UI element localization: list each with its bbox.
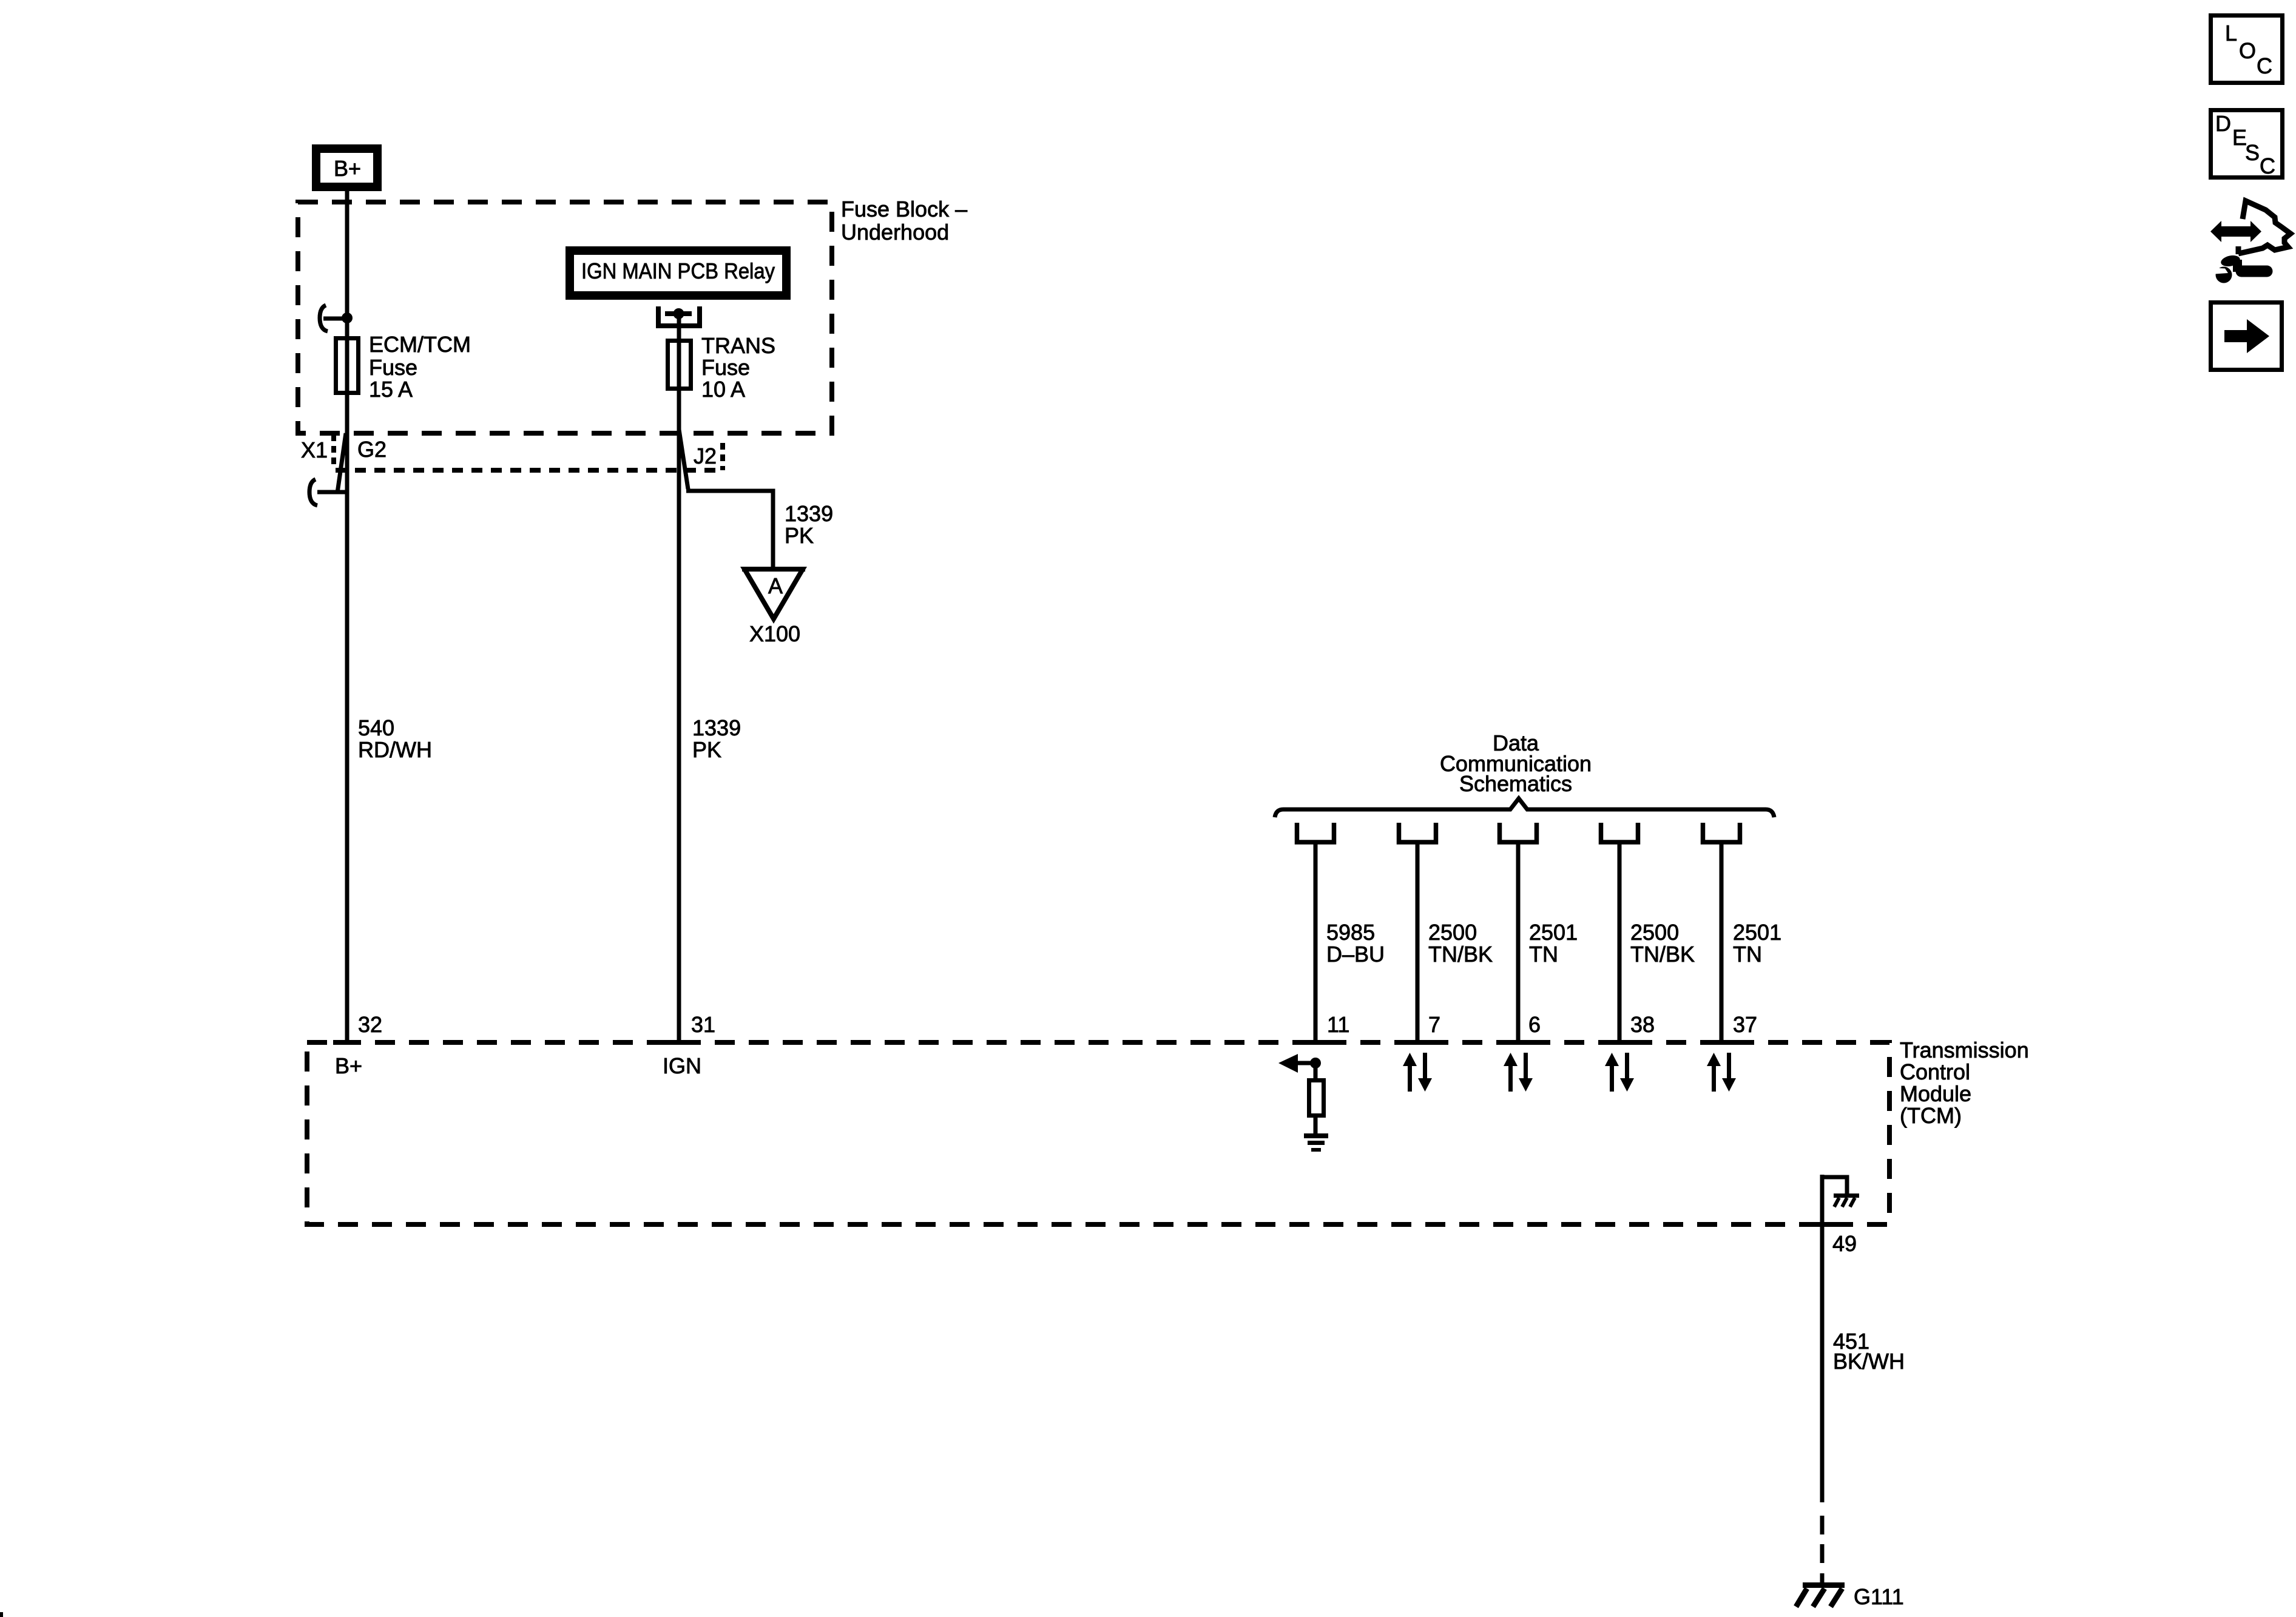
svg-text:PK: PK [692, 737, 721, 762]
internal chassis ground bracket at pin 49 [1822, 1177, 1847, 1196]
svg-text:B+: B+ [334, 156, 361, 181]
svg-text:J2: J2 [694, 444, 717, 468]
svg-text:L: L [2225, 21, 2237, 46]
svg-text:A: A [768, 573, 783, 598]
wire label 2501 TN (pin 37) [1733, 920, 1781, 967]
power feed box B+ [316, 149, 377, 187]
internal chassis ground symbol [1834, 1196, 1859, 1207]
pin 31 label [691, 1012, 715, 1037]
fuse ECM/TCM 15 A [336, 339, 359, 393]
wire label 1339 PK (branch) [785, 501, 833, 548]
node X1 label [301, 437, 328, 462]
pin 11 label [1327, 1012, 1349, 1037]
connector cup pin 11 [1297, 823, 1334, 842]
svg-text:IGN: IGN [663, 1053, 701, 1078]
wire label 2500 TN/BK (pin 7) [1428, 920, 1493, 967]
connector X1 separator [331, 434, 336, 467]
svg-text:C: C [2257, 53, 2272, 78]
svg-text:2501: 2501 [1733, 920, 1781, 945]
wire: B+ feed vertical (540 RD/WH run) [345, 187, 349, 1042]
ground G111 chassis symbol [1796, 1585, 1845, 1607]
wire label 2500 TN/BK (pin 38) [1630, 920, 1695, 967]
connector cup pin 6 [1500, 823, 1537, 842]
svg-text:540: 540 [358, 715, 394, 740]
relay pin tick and node [665, 308, 692, 319]
svg-text:15 A: 15 A [369, 377, 413, 402]
wire label 540 RD/WH [358, 715, 432, 762]
svg-text:S: S [2245, 140, 2260, 165]
svg-text:Control: Control [1900, 1059, 1970, 1084]
brace to Data Communication Schematics [1275, 798, 1774, 817]
wire: branch to X100 [686, 491, 773, 569]
svg-text:32: 32 [358, 1012, 382, 1037]
TCM pin B+ label [335, 1053, 362, 1078]
connector view tool icon [2209, 201, 2291, 283]
svg-text:11: 11 [1327, 1012, 1349, 1037]
svg-text:ECM/TCM: ECM/TCM [369, 332, 471, 357]
relay pin socket cup [658, 306, 700, 326]
connector X1 crossing slant [337, 433, 346, 493]
internal arrow at pin 11 [1278, 1054, 1315, 1073]
svg-text:Module: Module [1900, 1081, 1971, 1106]
connector X100 triangle A [742, 569, 805, 619]
connector cup pin 7 [1399, 823, 1436, 842]
junction node at ECM/TCM fuse feed [342, 312, 353, 323]
pin J2 label [694, 444, 717, 468]
Transmission Control Module dashed box [307, 1042, 1889, 1224]
svg-text:B+: B+ [335, 1053, 362, 1078]
LOC navigation box [2211, 16, 2283, 83]
svg-text:31: 31 [691, 1012, 715, 1037]
connector interface dotted line X1/J2 [336, 468, 723, 473]
bidirectional arrows pin 6 [1504, 1053, 1533, 1092]
svg-text:G111: G111 [1854, 1584, 1904, 1609]
fuse TRANS 10 A [668, 341, 691, 389]
ECM/TCM Fuse 15 A label [369, 332, 471, 402]
wire 2500 TN/BK (pin 38) [1618, 842, 1622, 1042]
wire label 5985 D-BU [1326, 920, 1385, 967]
page corner mark [0, 1612, 3, 1617]
svg-text:10 A: 10 A [701, 377, 745, 402]
connector cup pin 37 [1703, 823, 1740, 842]
wire: TRANS fuse feed vertical (1339 PK run) [677, 314, 681, 1042]
svg-text:BK/WH: BK/WH [1833, 1349, 1905, 1374]
node X100 label [749, 621, 800, 646]
pin 38 label [1630, 1012, 1655, 1037]
svg-text:(TCM): (TCM) [1900, 1103, 1962, 1128]
pin G2 label [357, 437, 387, 462]
wire label 451 BK/WH [1833, 1329, 1905, 1374]
svg-text:C: C [2260, 154, 2275, 178]
svg-text:6: 6 [1528, 1012, 1541, 1037]
junction node at pin 11 [1310, 1058, 1321, 1068]
svg-text:Underhood: Underhood [841, 220, 949, 245]
svg-text:Fuse: Fuse [369, 355, 417, 380]
svg-text:TRANS: TRANS [701, 333, 775, 358]
svg-text:37: 37 [1733, 1012, 1757, 1037]
bidirectional arrows pin 37 [1707, 1053, 1736, 1092]
pin 7 label [1428, 1012, 1440, 1037]
svg-text:PK: PK [785, 523, 814, 548]
connector cup pin 38 [1601, 823, 1638, 842]
svg-text:X1: X1 [301, 437, 328, 462]
svg-text:D–BU: D–BU [1326, 942, 1385, 967]
internal ground symbol [1304, 1118, 1328, 1150]
svg-text:49: 49 [1832, 1231, 1857, 1256]
svg-text:38: 38 [1630, 1012, 1655, 1037]
wire label 1339 PK (main run) [692, 715, 741, 762]
bidirectional arrows pin 38 [1605, 1053, 1634, 1092]
TRANS Fuse 10 A label [701, 333, 775, 402]
wire: TCM ground pin 49 [1820, 1175, 1825, 1502]
svg-text:5985: 5985 [1326, 920, 1375, 945]
pin 32 label [358, 1012, 382, 1037]
connector J2 crossing slant [679, 430, 688, 489]
svg-text:TN: TN [1529, 942, 1558, 967]
svg-text:RD/WH: RD/WH [358, 737, 432, 762]
svg-text:Fuse: Fuse [701, 355, 750, 380]
ground G111 label [1854, 1584, 1904, 1609]
svg-text:X100: X100 [749, 621, 800, 646]
svg-text:G2: G2 [357, 437, 387, 462]
Fuse Block - Underhood dashed box [298, 202, 832, 433]
svg-text:IGN MAIN PCB Relay: IGN MAIN PCB Relay [581, 258, 775, 283]
Transmission Control Module (TCM) label [1900, 1038, 2029, 1128]
wire dashed segment to G111 [1820, 1516, 1825, 1585]
Data Communication Schematics label [1440, 731, 1592, 796]
pin 49 label [1832, 1231, 1857, 1256]
TCM pin IGN label [663, 1053, 701, 1078]
pin 6 label [1528, 1012, 1541, 1037]
internal resistor at pin 11 [1309, 1063, 1324, 1116]
svg-text:7: 7 [1428, 1012, 1440, 1037]
svg-text:TN/BK: TN/BK [1630, 942, 1695, 967]
wire 5985 D-BU [1314, 842, 1318, 1042]
svg-text:D: D [2215, 111, 2231, 136]
svg-text:2501: 2501 [1529, 920, 1578, 945]
pin 37 label [1733, 1012, 1757, 1037]
svg-text:1339: 1339 [692, 715, 741, 740]
wire 2501 TN (pin 6) [1516, 842, 1521, 1042]
bidirectional arrows pin 7 [1403, 1053, 1432, 1092]
svg-text:2500: 2500 [1428, 920, 1477, 945]
clip symbol below X1 [309, 479, 347, 505]
svg-text:Transmission: Transmission [1900, 1038, 2029, 1062]
Fuse Block - Underhood label [841, 197, 967, 245]
pin dashes on TCM edge [333, 1042, 1836, 1224]
clip symbol at B+ junction [320, 305, 343, 331]
svg-text:Fuse Block –: Fuse Block – [841, 197, 967, 221]
DESC navigation box [2211, 110, 2283, 179]
svg-text:1339: 1339 [785, 501, 833, 526]
svg-text:TN: TN [1733, 942, 1762, 967]
svg-text:O: O [2239, 38, 2256, 63]
wire 2501 TN (pin 37) [1720, 842, 1724, 1042]
wire 2500 TN/BK (pin 7) [1416, 842, 1420, 1042]
relay U1 IGN MAIN PCB Relay box [570, 251, 786, 295]
svg-text:TN/BK: TN/BK [1428, 942, 1493, 967]
wire label 2501 TN (pin 6) [1529, 920, 1578, 967]
svg-text:Schematics: Schematics [1459, 771, 1572, 796]
svg-text:2500: 2500 [1630, 920, 1679, 945]
next navigation arrow box [2211, 303, 2282, 370]
connector J2 separator [720, 443, 725, 470]
